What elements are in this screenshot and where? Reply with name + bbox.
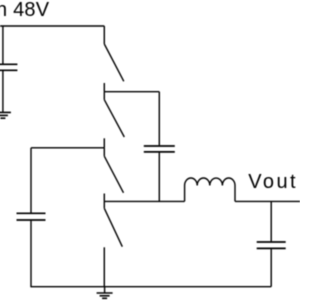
switch S2 blade	[104, 100, 124, 137]
wire switch node to inductor	[104, 200, 184, 202]
switch S1 blade	[104, 44, 124, 81]
switch S4 top terminal	[103, 201, 105, 208]
switch S3 blade	[104, 156, 123, 193]
wire node A to flying capacitor	[104, 91, 159, 93]
ground (bottom) stem	[104, 287, 106, 293]
switch S3 bottom terminal	[103, 194, 105, 202]
capacitor C2	[17, 213, 46, 220]
capacitor C1 (input)	[0, 64, 17, 70]
wire Vin top rail	[0, 25, 104, 27]
switch S2 top terminal	[103, 92, 105, 100]
svg-text:Vin 48V: Vin 48V	[0, 0, 50, 21]
wire C2 bottom lead	[30, 221, 32, 287]
wire inductor to Vout rail	[235, 200, 300, 202]
switch S3 top terminal	[103, 148, 105, 156]
switch S1 bottom terminal	[103, 83, 105, 92]
svg-text:Vout: Vout	[248, 171, 298, 193]
wire Cout top lead	[270, 201, 272, 241]
switch S4 blade	[104, 208, 122, 246]
wire bottom rail	[30, 286, 271, 288]
switch S4 bottom terminal	[103, 247, 105, 286]
wire Cout bottom lead	[270, 249, 272, 287]
wire Cfly top lead	[158, 92, 160, 146]
capacitor Cfly	[144, 146, 175, 152]
switch S1 top terminal	[103, 26, 105, 44]
ground (bottom) bars	[97, 293, 113, 298]
wire Cfly bottom lead	[158, 153, 160, 202]
switch S2 bottom terminal	[103, 138, 105, 148]
wire input branch lead	[2, 26, 4, 64]
wire C1 bottom lead	[2, 71, 4, 112]
wire C2 top lead	[30, 148, 32, 213]
inductor L1	[185, 178, 235, 201]
capacitor Cout	[257, 242, 286, 248]
wire node B rail to C2	[31, 147, 104, 149]
ground (input)	[0, 112, 11, 118]
